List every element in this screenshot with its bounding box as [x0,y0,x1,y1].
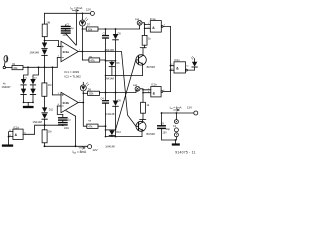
svg-text:6: 6 [148,91,149,93]
node junctions mic line [27,66,29,68]
svg-text:1: 1 [148,23,149,25]
svg-text:47k: 47k [88,125,93,129]
wire diode stack to mic line [44,55,46,67]
svg-text:1µ: 1µ [71,27,74,30]
svg-text:D5: D5 [118,33,122,36]
wire cap lower column [62,115,64,126]
LED D8 [80,85,86,91]
svg-text:D11: D11 [49,108,54,111]
ground IC1d [3,144,12,146]
wire LED D8 top [82,82,84,85]
capacitor C7 decoupling lower [59,122,67,124]
svg-text:5: 5 [148,88,149,90]
op-amp IC2b [61,92,78,112]
wire diode to node [44,119,46,130]
wire R6 right signal line [100,91,138,94]
svg-text:1N4148: 1N4148 [105,144,115,148]
wire R3 down [44,96,46,108]
wire mic node to pin5 [52,67,54,95]
wire IC1d to ground [8,137,10,145]
connector K1 terminal 1 [174,120,178,124]
wire R1 to node [44,37,46,43]
svg-text:10k: 10k [13,66,18,70]
diode D5m upper mid [115,29,117,34]
svg-text:D9: D9 [118,99,122,102]
resistor R5 series [89,58,100,62]
resistor R2 [12,66,23,70]
transistor T1 [136,55,146,65]
wire lamp2 right lead to R7 [140,89,143,103]
wire diagonal cross 1 [82,52,136,127]
wire bridge bottom join [24,95,34,103]
wire supply column lower [75,116,77,146]
svg-text:82k: 82k [88,27,93,31]
svg-text:12V: 12V [86,7,91,11]
resistor R1 [42,24,47,37]
diode D1 [42,43,47,49]
current arrow right [174,109,180,111]
wire IC1a output down [163,26,170,91]
wire lamp to node [142,23,145,36]
wire R4 to right [98,25,140,29]
svg-text:1M: 1M [48,131,51,134]
IC1d output [23,133,25,135]
diode D6 in loop [111,61,113,62]
svg-text:&: & [152,26,155,30]
diode D11 left lower [42,107,47,112]
svg-text:BC548: BC548 [147,65,156,69]
svg-text:&: & [15,133,18,137]
terminal +12V top [90,11,94,15]
wire node to IC1a inputs [145,24,151,28]
diode D4 [30,79,35,85]
gate IC1d [13,129,23,139]
wire R5 series left [82,59,89,61]
pin 2 stub [57,57,61,59]
ground right [174,140,176,143]
ground bridge [24,106,32,108]
svg-text:9: 9 [171,69,172,71]
svg-text:R8: R8 [88,120,92,122]
diode D12 left lower [42,114,47,119]
svg-text:IC2b: IC2b [63,101,70,105]
resistor R9 [42,130,47,143]
terminal 12V right [194,111,198,115]
resistor R8 series lower [87,124,98,128]
svg-text:IC1c: IC1c [174,58,180,62]
svg-text:D1: D1 [25,77,29,79]
svg-text:K1: K1 [173,124,177,128]
capacitor C1 C2 decoupling upper [62,26,71,28]
connector K1 terminal 3 [174,133,178,137]
wire bottom mid rail [106,136,143,138]
capacitor C3 [105,29,107,35]
capacitor C5 electrolytic right [158,125,165,127]
wire D5m down [115,40,117,93]
node junctions IC1c inputs [170,65,172,67]
pin 3 stub [57,46,61,48]
gate IC1b [151,87,161,97]
svg-text:D10: D10 [116,131,121,134]
diode D10 in lower loop [111,129,113,132]
IC1a output bubble [161,26,163,28]
svg-text:D7: D7 [87,23,91,26]
wire K1 top to rail [175,113,177,120]
node junction top rail [76,12,78,14]
svg-text:IC2 = TL062: IC2 = TL062 [64,75,81,79]
wire +12V down to op-amp [76,13,78,45]
capacitor C4 [105,93,107,101]
svg-text:914075 - 11: 914075 - 11 [175,150,195,154]
wire IC1c output to LED [187,67,194,70]
wire bias node to op-amp input [45,41,62,47]
terminal 12V bottom [88,145,92,149]
wire bridge right arm [33,67,39,79]
svg-text:La2: La2 [133,84,138,87]
resistor R5 [142,35,147,45]
diode lower mid [115,93,117,101]
wire diagonal cross 2 [116,60,136,130]
svg-text:10: 10 [186,66,188,68]
diode D2 [42,50,47,56]
wire LED to R4 [82,28,86,30]
current arrow top rail [72,9,78,11]
wire LED column to output node [81,26,83,60]
svg-text:25V: 25V [163,133,168,135]
wire rail to LED [81,13,83,20]
node junction bias [44,40,46,42]
svg-text:1M: 1M [48,83,52,87]
node junctions upper mid [105,28,107,30]
wire top +12V rail [45,12,91,14]
diode D5 [21,89,26,95]
wire R5 to T1 collector [143,45,145,55]
lamp La1 [137,20,142,25]
node output IC2a [82,51,84,53]
svg-text:10µ: 10µ [166,128,171,131]
wire pin2 to mic line [56,58,58,68]
wire K1 bottom to ground [175,137,177,140]
wire diode down [115,106,117,136]
diode D3 [21,79,26,85]
wire R5 series right to pump [100,59,116,62]
svg-text:&: & [176,67,179,71]
svg-text:&: & [153,92,156,96]
wire from rail down to R1 [44,13,46,24]
wire T1 emitter down [142,64,144,75]
svg-text:1k: 1k [146,103,149,107]
lamp La2 [135,86,140,91]
wire T2 emitter down [141,131,143,137]
svg-text:1N4148: 1N4148 [105,76,115,80]
wire C5 top to rail [161,113,163,125]
svg-text:82k: 82k [89,92,94,96]
svg-text:D6: D6 [116,62,120,65]
IC1b output bubble [161,91,163,93]
pin 5 stub [53,94,62,96]
diode D6 [30,89,35,95]
op-amp IC2a [61,41,78,61]
svg-text:1N4148: 1N4148 [105,112,115,116]
svg-text:IC1a: IC1a [150,17,156,21]
wire emitter rail upper [106,75,143,77]
wire loop ties lower [106,129,116,131]
svg-text:IC2a: IC2a [63,50,70,54]
gate IC1c [174,62,186,73]
svg-text:Itot = 8mA: Itot = 8mA [73,150,88,155]
svg-text:La1: La1 [135,18,140,21]
wire bridge left arm [24,67,29,79]
wire IC1b output up [163,91,171,93]
svg-text:1M: 1M [46,21,51,25]
svg-text:12V: 12V [187,106,192,110]
LED D7 [79,20,85,26]
resistor R4 [86,27,98,31]
IC1c output bubble [186,69,188,71]
svg-text:1N4148: 1N4148 [30,51,40,55]
svg-text:1N4007: 1N4007 [2,85,12,89]
svg-text:1k: 1k [148,37,151,41]
resistor R6 [88,91,100,95]
pin 1 output wire [78,51,82,53]
wire C3 down [105,44,107,93]
terminal mic [3,66,5,68]
pin 6 stub [57,105,61,107]
rail +12V right [162,112,194,114]
connector K1 terminal 2 [174,128,178,132]
bottom rail 12V [44,145,88,147]
IC1c input stubs [171,66,175,71]
svg-text:2: 2 [148,27,149,29]
wire R8 left from output column [83,103,87,127]
wire R7 to T2 [142,113,145,122]
gate IC1a [150,21,161,32]
resistor R3 bridge right [42,83,47,96]
wire node left to IC1d output [25,125,44,134]
wire mic node to R3 [44,67,46,83]
wire to ground [27,102,29,105]
wire diagonal lower supply [66,111,76,117]
transistor T2 [136,121,146,131]
wire R6 left to LED column [83,92,87,94]
wire LED D8 to output node [82,91,84,103]
resistor R7 [141,102,146,113]
svg-text:100n: 100n [64,127,70,130]
svg-text:1µ: 1µ [68,118,71,121]
svg-text:IC1d: IC1d [13,125,19,129]
svg-text:12V: 12V [92,148,97,152]
IC1b input stubs [143,90,151,93]
svg-text:47k: 47k [90,58,95,62]
wire R8 right [98,125,106,127]
svg-text:IC1 = 4093: IC1 = 4093 [64,70,79,74]
svg-text:BC548: BC548 [147,132,156,136]
pin 7 output [78,102,83,104]
IC1d input stubs [9,132,13,137]
wire C5 bottom to ground line [162,129,176,140]
svg-text:Itot = 8mA: Itot = 8mA [70,6,82,11]
wire cap diagonal to supply [66,34,76,45]
microphone MIC1 [4,56,8,62]
svg-text:Itot = 8mA: Itot = 8mA [170,105,182,110]
svg-text:D2: D2 [34,77,38,79]
svg-text:IC1b: IC1b [151,83,157,87]
wire mic to R2 [6,67,13,69]
LED D12 out [194,59,196,62]
current arrow bottom [79,147,85,150]
wire node right to caps [45,124,63,126]
wire mic line [23,66,57,68]
capacitor C6 decoupling lower [59,117,67,119]
svg-text:1N4148: 1N4148 [33,120,43,124]
svg-text:8: 8 [171,64,172,66]
